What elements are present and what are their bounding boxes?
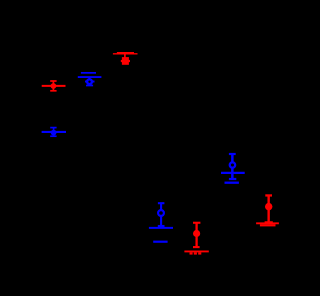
red point P8 short reference line [260, 224, 276, 226]
blue point P2 error bar [86, 77, 93, 86]
red point P1 error bar [50, 81, 56, 91]
red point P3 marker [122, 57, 129, 65]
red point P1 marker [51, 83, 57, 89]
red point P6 error bar [193, 223, 200, 247]
red point P6 dashed reference line dash 3 [198, 252, 201, 254]
red point P6 dashed reference line dash 2 [194, 252, 197, 254]
red point P8 long reference line [256, 222, 279, 224]
blue point P5 marker [158, 210, 164, 216]
red point P8 marker [265, 203, 272, 210]
blue point P5 long reference line [149, 227, 173, 229]
blue point P2 short reference line [81, 72, 96, 74]
red point P3 short reference line [117, 52, 134, 55]
blue point P5 error bar [158, 203, 165, 226]
red point P6 long reference line [184, 250, 208, 252]
blue point P7 marker [230, 162, 235, 167]
red point P1 horizontal line [42, 85, 66, 87]
blue point P4 marker [51, 130, 57, 136]
blue point P2 x error bar [85, 81, 95, 83]
red point P8 error bar [265, 195, 273, 222]
blue point P4 error bar [50, 128, 56, 137]
blue point P7 error bar [229, 154, 236, 179]
blue point P5 short reference line [153, 241, 167, 243]
red point P6 marker [193, 230, 200, 237]
blue point P7 short reference line [225, 182, 239, 184]
blue point P2 marker [87, 79, 92, 84]
red point P3 long reference line [113, 53, 138, 55]
blue point P4 horizontal line [42, 131, 66, 133]
red point P3 error bar [124, 54, 126, 58]
blue point P2 long reference line [78, 76, 102, 78]
red point P3 x error bar [121, 60, 130, 62]
blue point P7 long reference line [221, 172, 245, 174]
red point P6 dashed reference line dash 1 [190, 252, 193, 254]
